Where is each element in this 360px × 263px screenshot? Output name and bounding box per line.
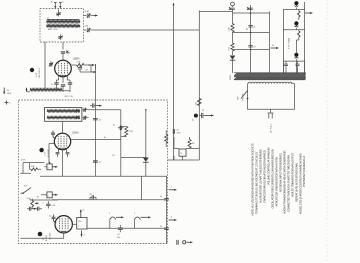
- wire - V2 grid from IF transformer: [62, 121, 64, 133]
- capacitor C30: [164, 199, 169, 200]
- AC plug P1: [268, 109, 274, 118]
- capacitor C14: [248, 46, 252, 47]
- test point TP2: [194, 114, 198, 118]
- svg-text:20: 20: [160, 226, 162, 228]
- svg-text:2: 2: [43, 202, 44, 204]
- wire - box A top lead: [58, 10, 60, 12]
- B+ arrow out: [271, 47, 279, 49]
- svg-text:.05: .05: [99, 119, 102, 121]
- pilot lamp I1: [231, 2, 235, 6]
- svg-text:VOLUME CONTROL AT MAXIMUM.: VOLUME CONTROL AT MAXIMUM.: [266, 147, 270, 185]
- switch S2 (tone): [23, 188, 31, 194]
- resistor R6 on rail x199.3: [198, 99, 202, 106]
- tube V3 50C5 output: [55, 216, 72, 233]
- test point TP4: [38, 232, 43, 237]
- svg-text:117 V.A.C.: 117 V.A.C.: [270, 123, 273, 133]
- wire - heater ladder left x283.4: [282, 12, 284, 73]
- tube V2 12BA6 IF amplifier: [54, 133, 70, 149]
- line switch S1: [241, 91, 248, 99]
- power transformer T2 core bar: [234, 77, 306, 80]
- wire - bottom bus y176.3: [40, 175, 167, 177]
- trimmer capacitor C4: [88, 28, 89, 32]
- svg-text:5: 5: [134, 213, 135, 215]
- svg-text:REPEAT UNTIL NO FURTHER GAIN.: REPEAT UNTIL NO FURTHER GAIN.: [294, 162, 298, 202]
- wire - riser x141.6: [141, 176, 143, 200]
- arrow into AVC rail: [88, 64, 94, 66]
- svg-text:ALIGN IF TRANSFORMERS AT 455 K: ALIGN IF TRANSFORMERS AT 455 KC WITH GEN…: [282, 150, 286, 214]
- boxed resistor R11: [47, 192, 52, 198]
- arrow - AVC out: [206, 115, 214, 117]
- svg-text:NO SIGNAL INPUT FOR READINGS.: NO SIGNAL INPUT FOR READINGS.: [278, 152, 282, 192]
- svg-text:ON-OFF: ON-OFF: [243, 93, 245, 101]
- capacitor C15 (line bypass): [284, 64, 288, 65]
- wire - V1 plate to RC network: [71, 64, 76, 66]
- svg-text:2.2M: 2.2M: [129, 131, 134, 133]
- IF section shield box (dashed): [18, 100, 167, 244]
- antenna coil secondary winding L1b: [47, 25, 81, 27]
- capacitor C31: [164, 228, 169, 229]
- wire - chain 2 vertical x250.6: [250, 5, 252, 73]
- volume control R12: [31, 201, 34, 207]
- ground arrow under R15: [81, 231, 83, 237]
- svg-text:40: 40: [247, 28, 249, 30]
- svg-text:3-30: 3-30: [85, 11, 90, 13]
- wire - crossbar y32.4: [233, 31, 270, 33]
- svg-text:600: 600: [117, 237, 120, 239]
- power transformer T2 primary (hatched bar): [234, 73, 306, 76]
- svg-text:12BA6: 12BA6: [72, 132, 80, 135]
- capacitor C21 on AVC rail: [93, 103, 94, 107]
- trimmer capacitor C1: [56, 13, 60, 14]
- capacitor C18 on rail x173.5: [173, 129, 174, 134]
- antenna terminal A1: [54, 3, 56, 8]
- svg-text:ANT COIL: ANT COIL: [48, 28, 59, 31]
- svg-text:B-: B-: [7, 90, 9, 92]
- svg-text:CONNECTED THROUGH .05 MFD TO T: CONNECTED THROUGH .05 MFD TO THE GRID PI…: [286, 154, 290, 212]
- arrow marker at L2 left: [26, 88, 28, 92]
- svg-text:1.5V: 1.5V: [45, 151, 47, 156]
- capacitor C32 (V1 left): [49, 64, 53, 65]
- svg-text:ALL RESISTORS 1/2 WATT UNLESS: ALL RESISTORS 1/2 WATT UNLESS OTHERWISE.: [258, 148, 262, 203]
- svg-text:1M: 1M: [192, 143, 195, 145]
- wire - rail vertical x199.3: [198, 11, 200, 161]
- trimmer capacitor C3: [88, 13, 89, 17]
- arrow tap upper: [169, 189, 177, 191]
- resistor R3: [231, 43, 234, 51]
- resistor R1: [77, 63, 85, 66]
- svg-text:.01: .01: [113, 125, 116, 127]
- trimmer capacitor C19: [84, 108, 85, 112]
- wire - R15 top riser with arrow: [80, 210, 82, 218]
- capacitor C16 (line bypass): [296, 64, 300, 65]
- wire - top horizontal feed: [199, 11, 232, 13]
- resistor R7 (cluster): [188, 140, 191, 149]
- capacitor C11: [230, 8, 234, 9]
- capacitor C23: [93, 161, 98, 162]
- capacitor C22: [93, 119, 98, 120]
- resistor R4 (heater dropping): [298, 11, 301, 17]
- svg-text:.02: .02: [203, 109, 205, 112]
- svg-text:TERMINALS TO B- BUS. LINE VOLT: TERMINALS TO B- BUS. LINE VOLTAGE AT 117…: [254, 151, 258, 214]
- IF transformer T3 primary: [47, 110, 80, 112]
- speaker coupling hump L3: [109, 220, 111, 229]
- svg-text:12BE6: 12BE6: [73, 59, 81, 61]
- wire - ladder bottom ties: [283, 61, 304, 73]
- svg-text:AT 455 KC: AT 455 KC: [38, 67, 41, 77]
- capacitor C29: [118, 228, 123, 229]
- wire - antenna output stub upper: [84, 15, 95, 17]
- svg-text:OSC COIL: OSC COIL: [64, 96, 73, 98]
- antenna coil primary winding L1a: [47, 20, 81, 22]
- wire - V3 input caps: [30, 207, 31, 211]
- diode load rail x145.8: [145, 110, 147, 158]
- test point TP3: [39, 148, 43, 152]
- svg-text:CYCLES: CYCLES: [49, 232, 51, 240]
- IF transformer T3 box: [45, 107, 82, 121]
- svg-text:.02: .02: [117, 234, 120, 236]
- svg-text:PHOTOFACT FOLDER 22-14.: PHOTOFACT FOLDER 22-14.: [302, 155, 306, 187]
- antenna coil shield box T1 (dashed): [40, 9, 84, 43]
- wire - IF output to detector rail: [89, 109, 121, 111]
- signal arrow out of V1: [91, 71, 96, 73]
- capacitor C6: [79, 65, 81, 67]
- oscillator coil L2: [30, 89, 62, 91]
- capacitor C5 (V1 grid): [61, 52, 65, 53]
- svg-text:470K: 470K: [21, 160, 26, 162]
- tube V1 12BE6 converter: [55, 60, 72, 77]
- diode D2 (detector): [143, 158, 149, 162]
- wire - B+ rail vertical x173.5: [173, 3, 175, 130]
- capacitor C26: [120, 126, 121, 130]
- wire - crossbar y49.5: [233, 49, 270, 51]
- svg-text:7: 7: [171, 186, 172, 188]
- svg-text:NOTE: ALL VOLTAGES MEASURED WI: NOTE: ALL VOLTAGES MEASURED WITH VTVM FR…: [250, 143, 254, 215]
- tube heater V6: [294, 53, 298, 57]
- capacitor C10: [68, 83, 72, 84]
- capacitor C8 (cathode): [54, 83, 58, 84]
- svg-text:.005: .005: [52, 205, 56, 207]
- capacitor C33 (V2 cathode): [58, 149, 60, 152]
- ground symbol G1 with note: [3, 88, 5, 95]
- components on rail x166.5: [166, 176, 168, 243]
- capacitor C12: [248, 8, 252, 9]
- wire - left bias network: [20, 144, 54, 174]
- detector rail x120.8: [120, 110, 122, 177]
- resistor R5: [298, 31, 301, 37]
- signal arrow to converter grid: [94, 15, 98, 17]
- wire - AF line y200: [52, 199, 166, 201]
- svg-text:6.3V 150MA: 6.3V 150MA: [288, 37, 291, 49]
- boxed resistor R15 (output plate): [77, 218, 87, 230]
- AVC rail x95.4: [94, 64, 96, 176]
- svg-text:220K: 220K: [31, 166, 36, 168]
- power transformer T2 secondary box with winding: [248, 82, 294, 83]
- resistor R13: [125, 127, 128, 137]
- svg-text:.02: .02: [49, 215, 52, 217]
- svg-text:ADJUST TRIMMERS FOR MAX OUTPUT: ADJUST TRIMMERS FOR MAX OUTPUT.: [290, 152, 294, 197]
- wire - cluster ties: [174, 137, 199, 149]
- svg-text:.02: .02: [89, 194, 92, 196]
- boxed resistor R8: [179, 149, 186, 156]
- rectifier diode D1 35W4: [230, 56, 236, 60]
- capacitor C34 (V2 screen): [66, 149, 68, 152]
- resistor R9: [31, 168, 38, 171]
- capacitor C13: [248, 26, 252, 27]
- wire - R10 top tie: [49, 163, 51, 164]
- svg-text:3: 3: [109, 213, 110, 215]
- boxed resistor R10: [47, 164, 52, 170]
- resistor R14 at box edge: [165, 134, 168, 143]
- wire - V1 grid lead from coil box: [62, 42, 64, 50]
- svg-text:20: 20: [160, 196, 162, 198]
- wire - heater ladder right x304.6: [304, 2, 306, 73]
- wire - B+ vertical x269.4: [268, 12, 270, 74]
- svg-text:SW: SW: [238, 97, 240, 100]
- arrow tap lower: [169, 219, 177, 221]
- trimmer capacitor C20: [84, 116, 85, 120]
- capacitor C17: [202, 113, 203, 118]
- capacitor C25: [46, 204, 50, 205]
- svg-text:OSCILLATOR GRID CURRENT 0.3 MA: OSCILLATOR GRID CURRENT 0.3 MA MEASURED …: [270, 149, 274, 208]
- wire - volume feed y200: [30, 199, 58, 201]
- svg-text:22K: 22K: [77, 61, 81, 63]
- arrow - heater tap: [306, 12, 313, 14]
- svg-text:CAPACITOR VALUES IN MFD UNLESS: CAPACITOR VALUES IN MFD UNLESS MARKED.: [262, 150, 266, 203]
- svg-text:ACROSS 22K GRID RESISTOR WITH: ACROSS 22K GRID RESISTOR WITH A VTVM.: [274, 156, 278, 206]
- svg-text:.01: .01: [99, 162, 102, 164]
- wire - V1 pins: [59, 76, 68, 83]
- svg-text:MODEL 5T22 CHASSIS COURTESY HO: MODEL 5T22 CHASSIS COURTESY HOWARD W SAM…: [298, 153, 302, 214]
- tube heater V5: [294, 21, 298, 25]
- capacitor C27 (coupling): [92, 195, 93, 199]
- capacitor C24 (V2 grid side): [51, 133, 55, 134]
- tube heater V4 (dial lamp top): [294, 1, 298, 5]
- test point TP1 (waveform label): [30, 68, 34, 72]
- wire - V2 plate lead: [71, 139, 121, 141]
- svg-text:4.5V: 4.5V: [36, 72, 38, 77]
- svg-text:6: 6: [171, 217, 172, 219]
- wire - V3 grid return: [21, 233, 64, 238]
- output jack J1: [177, 240, 178, 245]
- capacitor C28 (V3 grid): [52, 217, 56, 218]
- page fold line: [326, 0, 328, 263]
- capacitor C9: [61, 85, 65, 86]
- wire - oscillator feed line: [84, 29, 200, 31]
- IF transformer T3 secondary: [47, 117, 80, 119]
- wire - network output: [80, 65, 91, 72]
- trimmer capacitor C2: [58, 37, 62, 38]
- resistor R2: [232, 13, 234, 24]
- wire - audio out bus y228.2: [87, 227, 167, 229]
- antenna terminal A2: [59, 3, 61, 8]
- wire - V2 cathode down: [62, 150, 64, 177]
- wire - detector bottom tie: [121, 157, 146, 159]
- svg-text:AT 455KC: AT 455KC: [47, 148, 50, 157]
- svg-text:PWR: PWR: [230, 75, 232, 80]
- svg-text:1.2K: 1.2K: [229, 27, 231, 32]
- speaker coupling hump L4: [133, 220, 135, 229]
- svg-text:G: G: [62, 1, 64, 3]
- wire - crossbar y13: [233, 12, 270, 14]
- polarity mark near box B top: [5, 101, 9, 105]
- wire - left branch from coil box: [44, 42, 46, 89]
